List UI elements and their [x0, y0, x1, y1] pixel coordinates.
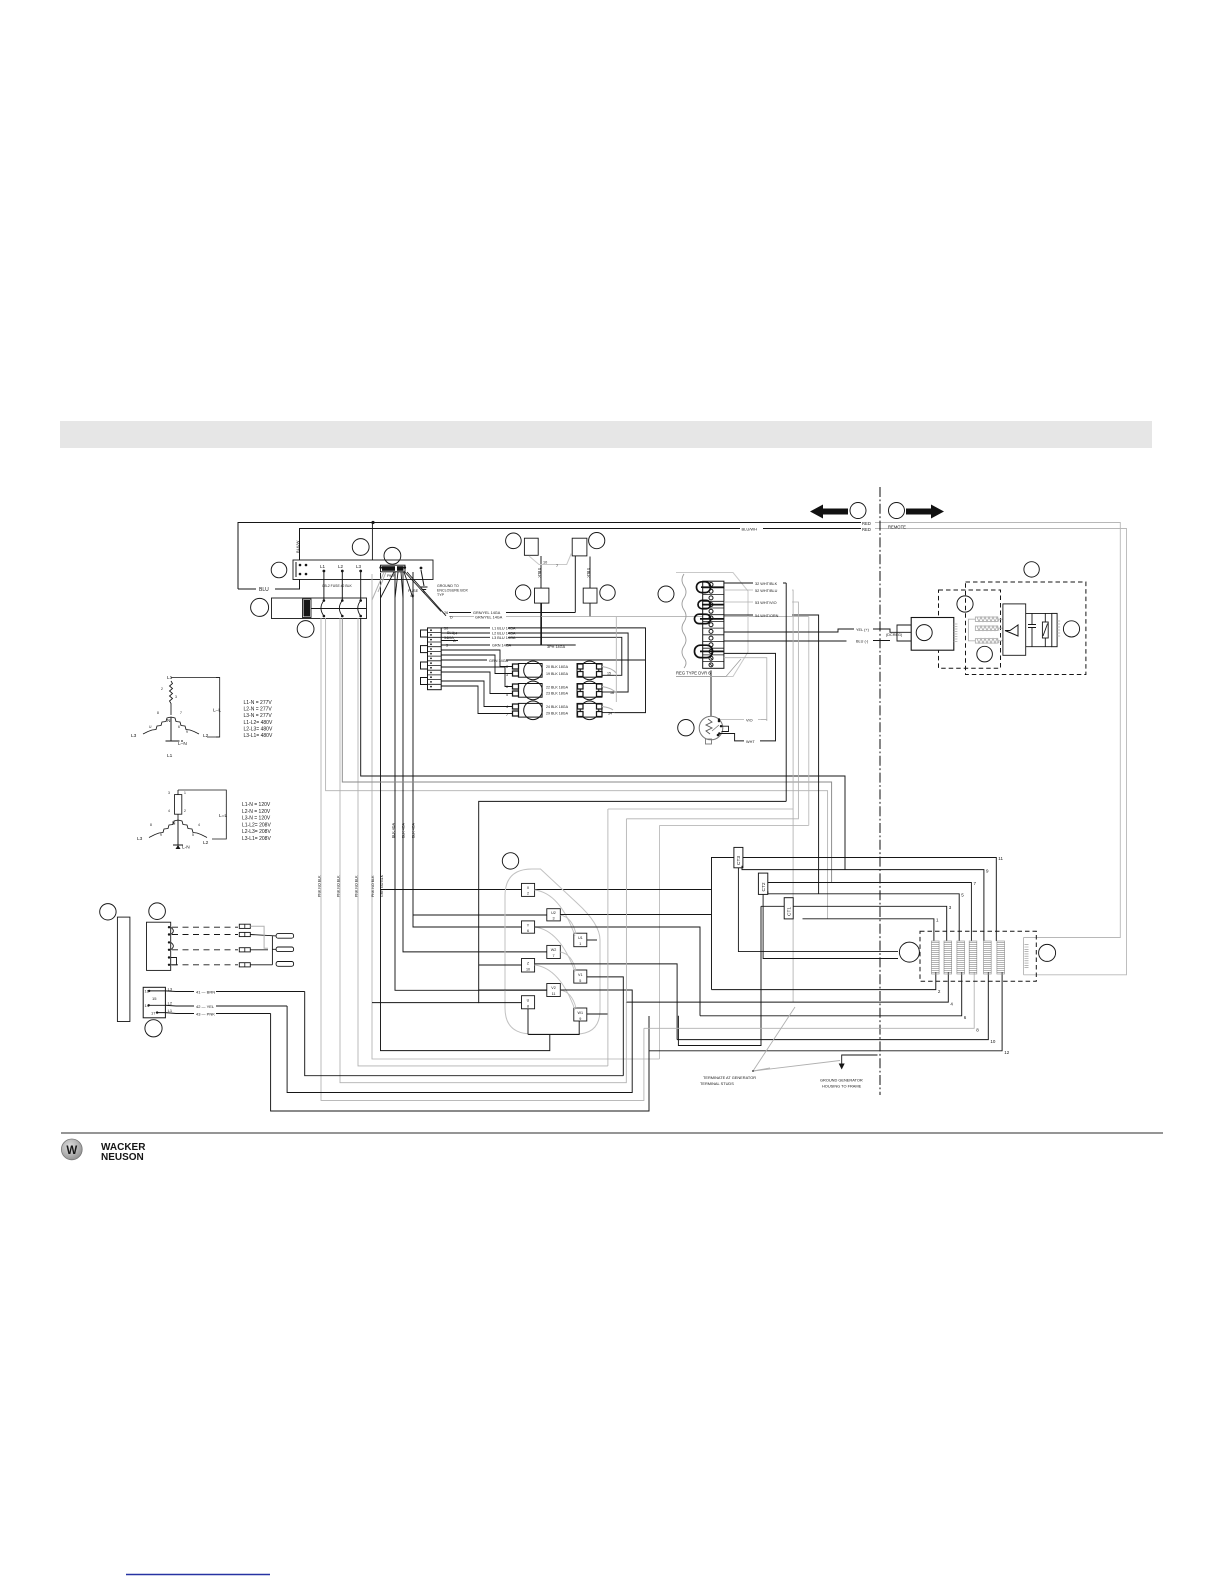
- svg-text:L1: L1: [167, 675, 173, 681]
- svg-text:PNK NO BLK: PNK NO BLK: [318, 875, 322, 897]
- svg-text:L=L: L=L: [219, 813, 227, 819]
- svg-text:15: 15: [152, 996, 157, 1001]
- svg-text:PNK NO BLK: PNK NO BLK: [371, 875, 375, 897]
- svg-text:BLK 4GA: BLK 4GA: [402, 822, 406, 838]
- svg-text:GRN 14GA: GRN 14GA: [492, 644, 512, 648]
- svg-text:8: 8: [150, 823, 152, 827]
- svg-text:L3-N = 120V: L3-N = 120V: [242, 816, 271, 822]
- svg-text:6: 6: [527, 929, 529, 933]
- svg-text:26: 26: [444, 611, 448, 615]
- svg-text:7: 7: [552, 954, 554, 958]
- svg-text:54 WHT/ORN: 54 WHT/ORN: [755, 614, 779, 618]
- svg-text:32 WHT/BLK: 32 WHT/BLK: [755, 582, 778, 586]
- svg-text:6: 6: [506, 685, 508, 689]
- svg-text:8: 8: [506, 665, 508, 669]
- svg-text:52 WHT/BLU: 52 WHT/BLU: [755, 589, 778, 593]
- svg-text:L–L: L–L: [213, 708, 221, 714]
- svg-text:23 BLK 18GA: 23 BLK 18GA: [546, 692, 569, 696]
- svg-text:10: 10: [543, 561, 547, 565]
- svg-text:2: 2: [184, 809, 186, 813]
- svg-text:22 BLK 18GA: 22 BLK 18GA: [546, 686, 569, 690]
- svg-text:8: 8: [976, 1028, 979, 1033]
- svg-text:1: 1: [184, 791, 186, 795]
- svg-text:CB-2 FUSE #2 BLK: CB-2 FUSE #2 BLK: [322, 584, 353, 588]
- svg-text:10A: 10A: [447, 636, 454, 640]
- svg-text:L3: L3: [131, 733, 137, 739]
- svg-text:3: 3: [168, 791, 170, 795]
- svg-text:BLU/WH: BLU/WH: [742, 526, 758, 531]
- svg-text:9: 9: [160, 833, 162, 837]
- svg-text:17: 17: [151, 1011, 156, 1016]
- svg-text:GROUND TO: GROUND TO: [437, 584, 459, 588]
- svg-text:PNK NO BLK: PNK NO BLK: [337, 875, 341, 897]
- svg-text:41 — BRN: 41 — BRN: [196, 989, 215, 994]
- svg-text:BLK 4GA: BLK 4GA: [392, 822, 396, 838]
- svg-text:53 WHT/VIO: 53 WHT/VIO: [755, 601, 777, 605]
- svg-text:VIO: VIO: [746, 719, 753, 723]
- svg-text:16: 16: [145, 989, 150, 994]
- svg-text:U: U: [149, 725, 152, 729]
- svg-text:N: N: [172, 821, 176, 827]
- svg-text:CT1: CT1: [787, 907, 793, 916]
- svg-text:BLU: BLU: [447, 631, 455, 635]
- svg-text:WHT: WHT: [746, 740, 755, 744]
- svg-text:4: 4: [950, 1002, 953, 1007]
- svg-text:V1: V1: [578, 973, 583, 977]
- svg-text:11: 11: [998, 856, 1003, 861]
- svg-text:N: N: [167, 718, 171, 724]
- svg-text:3: 3: [175, 695, 177, 699]
- svg-text:TYP: TYP: [437, 593, 445, 597]
- svg-text:L2: L2: [338, 564, 344, 569]
- svg-text:11: 11: [552, 992, 556, 996]
- svg-text:(DCREG): (DCREG): [886, 633, 903, 637]
- svg-text:L2-L3= 480V: L2-L3= 480V: [244, 726, 273, 732]
- svg-text:CT3: CT3: [736, 856, 742, 865]
- svg-text:5 BLK: 5 BLK: [586, 568, 590, 578]
- svg-text:1: 1: [579, 942, 581, 946]
- svg-text:L2-N = 120V: L2-N = 120V: [242, 809, 271, 815]
- svg-text:L2: L2: [203, 840, 209, 846]
- svg-text:V2: V2: [551, 986, 556, 990]
- svg-text:L1-N = 277V: L1-N = 277V: [244, 700, 273, 706]
- svg-text:L1-N = 120V: L1-N = 120V: [242, 802, 271, 808]
- svg-text:REG TYPE DVR 6: REG TYPE DVR 6: [676, 671, 711, 676]
- svg-text:U: U: [527, 999, 530, 1003]
- svg-text:L3 BLU 14GA: L3 BLU 14GA: [492, 636, 516, 640]
- svg-text:9: 9: [186, 730, 188, 734]
- svg-text:PNK NO BLK: PNK NO BLK: [355, 875, 359, 897]
- svg-text:3PH 14GA: 3PH 14GA: [547, 645, 566, 649]
- svg-text:3: 3: [446, 644, 448, 648]
- svg-text:L3: L3: [137, 836, 143, 842]
- svg-text:ENCLOSURE BOX: ENCLOSURE BOX: [437, 589, 469, 593]
- svg-text:2: 2: [161, 687, 163, 691]
- svg-text:TERMINAL STUDS: TERMINAL STUDS: [700, 1081, 734, 1086]
- svg-text:L-N: L-N: [182, 845, 190, 851]
- svg-text:1: 1: [936, 918, 939, 923]
- svg-text:RED: RED: [862, 521, 871, 526]
- svg-text:CT2: CT2: [761, 882, 767, 891]
- svg-text:GRN NO BLK: GRN NO BLK: [380, 874, 384, 897]
- svg-text:GRN/YEL 14GA: GRN/YEL 14GA: [475, 616, 503, 620]
- svg-text:L2-N = 277V: L2-N = 277V: [244, 707, 273, 713]
- svg-text:L3-L1= 480V: L3-L1= 480V: [244, 733, 273, 739]
- svg-text:24 BLK 18GA: 24 BLK 18GA: [546, 705, 569, 709]
- svg-text:4: 4: [198, 823, 200, 827]
- svg-text:W2: W2: [551, 948, 557, 952]
- svg-text:5: 5: [961, 893, 964, 898]
- svg-text:W1: W1: [578, 1011, 584, 1015]
- svg-text:RED: RED: [862, 527, 871, 532]
- svg-text:HOUSING TO FRAME: HOUSING TO FRAME: [822, 1084, 862, 1089]
- svg-text:7: 7: [974, 881, 977, 886]
- svg-text:7: 7: [556, 564, 558, 568]
- svg-text:BLK/W: BLK/W: [295, 540, 300, 553]
- svg-text:L2-L3= 208V: L2-L3= 208V: [242, 829, 271, 835]
- svg-text:REMOTE: REMOTE: [888, 525, 906, 530]
- svg-text:L–N: L–N: [178, 741, 187, 747]
- svg-text:6: 6: [178, 725, 180, 729]
- svg-text:5 BLK: 5 BLK: [537, 568, 541, 578]
- svg-text:L1: L1: [320, 564, 326, 569]
- svg-text:L1-L2= 480V: L1-L2= 480V: [244, 720, 273, 726]
- svg-text:U1: U1: [578, 936, 583, 940]
- svg-text:34: 34: [608, 712, 612, 716]
- svg-text:L3: L3: [356, 564, 362, 569]
- svg-text:L1: L1: [167, 753, 173, 759]
- svg-text:4: 4: [506, 705, 508, 709]
- svg-text:5: 5: [579, 979, 581, 983]
- svg-text:20 BLK 18GA: 20 BLK 18GA: [546, 665, 569, 669]
- svg-text:5: 5: [192, 833, 194, 837]
- svg-text:GROUND GENERATOR: GROUND GENERATOR: [820, 1078, 863, 1083]
- svg-text:6: 6: [964, 1015, 967, 1020]
- svg-text:L2: L2: [168, 1001, 173, 1006]
- svg-text:L3-N = 277V: L3-N = 277V: [244, 713, 273, 719]
- svg-text:2: 2: [938, 989, 941, 994]
- svg-text:12: 12: [1004, 1050, 1010, 1055]
- svg-text:29 BLK 18GA: 29 BLK 18GA: [546, 712, 569, 716]
- svg-text:U2: U2: [551, 911, 556, 915]
- svg-text:50: 50: [444, 627, 448, 631]
- svg-text:L2: L2: [203, 733, 209, 739]
- svg-text:L2 BLU 14GA: L2 BLU 14GA: [492, 632, 516, 636]
- svg-text:9: 9: [986, 869, 989, 874]
- svg-text:D: D: [450, 616, 453, 620]
- svg-text:9: 9: [579, 1017, 581, 1021]
- svg-text:8: 8: [527, 1005, 529, 1009]
- svg-text:L3-L1= 208V: L3-L1= 208V: [242, 836, 271, 842]
- svg-text:43 — PNK: 43 — PNK: [196, 1011, 215, 1016]
- svg-text:NEUSON: NEUSON: [101, 1152, 144, 1163]
- svg-text:GRN/YEL 14GA: GRN/YEL 14GA: [473, 611, 501, 615]
- svg-text:GRN 14GA: GRN 14GA: [489, 659, 509, 663]
- svg-text:L1: L1: [168, 1008, 173, 1013]
- svg-text:2: 2: [527, 892, 529, 896]
- svg-text:10: 10: [526, 968, 530, 972]
- svg-text:L1-L2= 208V: L1-L2= 208V: [242, 822, 271, 828]
- svg-text:19 BLK 18GA: 19 BLK 18GA: [546, 672, 569, 676]
- svg-text:3: 3: [949, 905, 952, 910]
- svg-text:TERMINATE AT GENERATOR: TERMINATE AT GENERATOR: [703, 1075, 756, 1080]
- svg-text:L1 BLU 14GA: L1 BLU 14GA: [492, 627, 516, 631]
- svg-text:YEL (+): YEL (+): [856, 628, 870, 632]
- svg-text:BLU (-): BLU (-): [856, 640, 869, 644]
- svg-text:W: W: [66, 1145, 77, 1157]
- svg-text:8: 8: [157, 711, 159, 715]
- svg-text:3: 3: [552, 917, 554, 921]
- svg-text:BLU: BLU: [259, 587, 269, 593]
- svg-text:BLK 4GA: BLK 4GA: [412, 822, 416, 838]
- svg-text:42 — YEL: 42 — YEL: [196, 1004, 215, 1009]
- svg-text:10: 10: [990, 1039, 996, 1044]
- svg-text:7: 7: [180, 711, 182, 715]
- svg-text:4: 4: [168, 809, 170, 813]
